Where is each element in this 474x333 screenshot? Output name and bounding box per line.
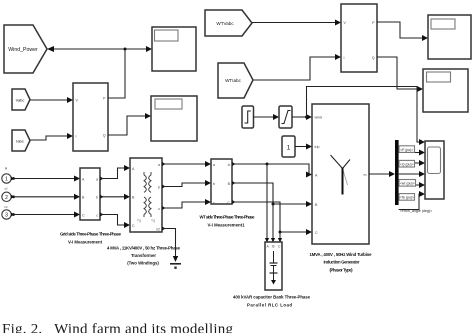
wire phase c drop to capacitor bank bbox=[278, 202, 282, 243]
svg-text:c: c bbox=[158, 207, 160, 211]
svg-text:C: C bbox=[82, 213, 85, 217]
wire wind branch to Scope5 input 1 bbox=[307, 87, 426, 146]
svg-text:a: a bbox=[96, 177, 98, 181]
wire WTIabc to U2 I input bbox=[253, 54, 341, 80]
scope Scope4 bbox=[423, 69, 468, 112]
svg-text:Grid side Three-Phase Three-Ph: Grid side Three-Phase Three-Phase bbox=[60, 232, 122, 237]
svg-text:n2: n2 bbox=[156, 228, 160, 232]
from tag WTIabc bbox=[218, 63, 253, 98]
wire rate limiter to wind input bbox=[292, 114, 312, 120]
bus output pitch angle wire bbox=[399, 191, 425, 210]
svg-text:Fig. 2. Wind farm and its mo: Fig. 2. Wind farm and its modelling bbox=[2, 322, 234, 333]
wire port1 to measurement A bbox=[12, 176, 80, 182]
svg-text:(Two Windings): (Two Windings) bbox=[127, 261, 159, 266]
transformer winding icon bbox=[137, 172, 155, 223]
scope Scope2 bbox=[151, 96, 197, 141]
svg-text:Transformer: Transformer bbox=[131, 253, 156, 258]
subsystem U2 power measurement bbox=[341, 4, 377, 72]
connection port 3 bbox=[2, 210, 14, 219]
wire transformer a to WT measurement a bbox=[162, 161, 211, 167]
grid side V-I measurement block bbox=[80, 168, 100, 220]
wire transformer n2 to ground bbox=[162, 227, 178, 263]
svg-text:C: C bbox=[315, 231, 318, 235]
svg-text:C: C bbox=[132, 224, 135, 228]
capacitor bank RLC load block bbox=[265, 242, 282, 290]
svg-text:b2: b2 bbox=[4, 205, 8, 209]
signal label pitch angle bbox=[400, 209, 432, 213]
caption transformer bbox=[107, 246, 181, 266]
svg-text:Yg: Yg bbox=[137, 219, 141, 223]
svg-text:c: c bbox=[96, 213, 98, 217]
svg-text:400 kVAR capacitor Bank Three-: 400 kVAR capacitor Bank Three-Phase bbox=[233, 295, 311, 300]
caption WT side measurement bbox=[200, 215, 256, 228]
caption wind turbine block bbox=[310, 252, 373, 273]
from tag Iabc bbox=[12, 130, 30, 151]
svg-text:Parallel RLC Load: Parallel RLC Load bbox=[247, 303, 292, 308]
scope Scope5 bbox=[425, 141, 444, 199]
svg-text:<Pitch_angle (deg)>: <Pitch_angle (deg)> bbox=[400, 209, 432, 213]
svg-text:Wind_Power: Wind_Power bbox=[8, 47, 38, 53]
wire constant to trip input bbox=[295, 144, 312, 150]
svg-text:V-I Measurement1: V-I Measurement1 bbox=[208, 223, 246, 228]
svg-text:wind: wind bbox=[315, 116, 322, 120]
signal label Te bbox=[399, 194, 415, 201]
svg-text:Q: Q bbox=[372, 56, 375, 60]
svg-text:a2: a2 bbox=[4, 187, 8, 191]
svg-text:a: a bbox=[158, 163, 160, 167]
svg-text:4 MVA , 11KV/400V , 50 hz Thre: 4 MVA , 11KV/400V , 50 hz Three-Phase bbox=[107, 246, 181, 251]
svg-text:<P (pu)>: <P (pu)> bbox=[400, 148, 413, 152]
svg-text:b: b bbox=[158, 186, 160, 190]
svg-text:WTVabc: WTVabc bbox=[216, 21, 234, 26]
subsystem U1 power measurement bbox=[73, 83, 108, 151]
wire Vabc to U1 V input bbox=[30, 97, 73, 103]
wire from P junction to Wind_Power and Scope1 bbox=[47, 46, 152, 98]
wire port3 to measurement C bbox=[12, 212, 80, 218]
WT side V-I measurement block bbox=[211, 159, 232, 205]
svg-text:Yg: Yg bbox=[151, 219, 155, 223]
junction node on Wind_Power wire bbox=[124, 48, 127, 51]
wire measurement c to transformer C bbox=[100, 213, 130, 229]
wire transformer c to WT measurement c bbox=[162, 199, 211, 210]
svg-text:<wr (pu)>: <wr (pu)> bbox=[400, 182, 415, 186]
bus selector bar bbox=[395, 140, 399, 205]
junction node phase b bbox=[272, 203, 275, 206]
svg-text:Q: Q bbox=[103, 134, 106, 138]
rate limiter block bbox=[279, 106, 292, 128]
svg-text:a: a bbox=[213, 163, 215, 167]
svg-text:m: m bbox=[364, 173, 367, 177]
wire Iabc to U1 I input bbox=[30, 133, 73, 140]
svg-text:2: 2 bbox=[5, 195, 8, 201]
wire measurement b to transformer B bbox=[100, 194, 130, 200]
svg-text:<Te (pu)>: <Te (pu)> bbox=[399, 196, 414, 200]
connection port 2 bbox=[2, 192, 14, 209]
svg-text:1MVA , 400V , 50Hz Wind Turbi: 1MVA , 400V , 50Hz Wind Turbine bbox=[310, 252, 373, 257]
wind turbine rotor icon bbox=[331, 155, 351, 195]
signal label Q bbox=[399, 160, 415, 167]
svg-text:3: 3 bbox=[5, 213, 8, 219]
bus output Te wire bbox=[399, 182, 425, 188]
wire phase b to turbine B bbox=[232, 181, 312, 207]
svg-text:Vabc: Vabc bbox=[16, 97, 25, 102]
wire port2 to measurement B bbox=[12, 194, 80, 200]
wire step to rate limiter bbox=[254, 114, 280, 120]
three-phase transformer block bbox=[130, 158, 162, 232]
svg-text:1: 1 bbox=[5, 177, 8, 183]
wire phase a drop to capacitor bank bbox=[265, 164, 269, 243]
wire U2 Q output to Scope4 bbox=[377, 57, 423, 92]
wire U2 P output to Scope3 bbox=[377, 22, 428, 41]
svg-text:WTIabc: WTIabc bbox=[225, 78, 242, 83]
junction node phase c bbox=[279, 231, 282, 234]
wire WTVabc to U2 V input bbox=[252, 20, 341, 26]
from tag Vabc bbox=[12, 89, 30, 110]
bus output wr wire bbox=[399, 171, 425, 177]
constant block value 1 bbox=[282, 136, 295, 157]
svg-text:C: C bbox=[227, 201, 230, 205]
wire phase c to turbine C bbox=[232, 200, 312, 235]
wind turbine induction generator block U3 bbox=[312, 104, 369, 244]
svg-text:I: I bbox=[344, 56, 345, 60]
wire transformer b to WT measurement b bbox=[162, 180, 211, 189]
junction node phase a bbox=[266, 163, 269, 166]
wire phase a to turbine A bbox=[232, 162, 312, 178]
connection port 1 bbox=[2, 167, 14, 191]
wire measurement a to transformer A bbox=[100, 165, 130, 181]
scope Scope3 bbox=[428, 15, 471, 59]
svg-text:Induction Generator: Induction Generator bbox=[324, 260, 360, 265]
svg-text:B: B bbox=[272, 245, 274, 249]
from tag WTVabc bbox=[205, 10, 252, 36]
svg-text:V-I Measurement: V-I Measurement bbox=[68, 240, 103, 245]
svg-text:b: b bbox=[213, 182, 215, 186]
signal label P bbox=[399, 146, 415, 153]
bus output P wire bbox=[399, 150, 425, 156]
wire phase b drop to capacitor bank bbox=[271, 183, 275, 243]
svg-text:c: c bbox=[213, 201, 215, 205]
svg-text:Iabc: Iabc bbox=[16, 138, 24, 143]
svg-text:WT side Three-Phase Three-Phas: WT side Three-Phase Three-Phase bbox=[200, 215, 256, 220]
svg-text:I: I bbox=[76, 135, 77, 139]
svg-text:b: b bbox=[96, 196, 98, 200]
svg-text:trip: trip bbox=[315, 145, 320, 149]
caption grid side measurement bbox=[60, 232, 122, 245]
caption capacitor bank bbox=[233, 295, 311, 308]
ground symbol bbox=[170, 264, 181, 269]
svg-text:(Phasor Type): (Phasor Type) bbox=[330, 268, 354, 273]
junction node wind branch bbox=[305, 116, 308, 119]
scope Scope1 bbox=[152, 27, 196, 71]
step source block bbox=[242, 106, 254, 128]
svg-text:1: 1 bbox=[287, 145, 291, 152]
goto tag Wind_Power bbox=[4, 25, 47, 73]
svg-text:<Q (pu)>: <Q (pu)> bbox=[400, 162, 414, 166]
wire m output to bus selector bbox=[369, 171, 395, 177]
bus output Q wire bbox=[399, 160, 425, 166]
wire U1 Q output to Scope2 bbox=[108, 113, 151, 135]
signal label wr bbox=[399, 180, 416, 187]
